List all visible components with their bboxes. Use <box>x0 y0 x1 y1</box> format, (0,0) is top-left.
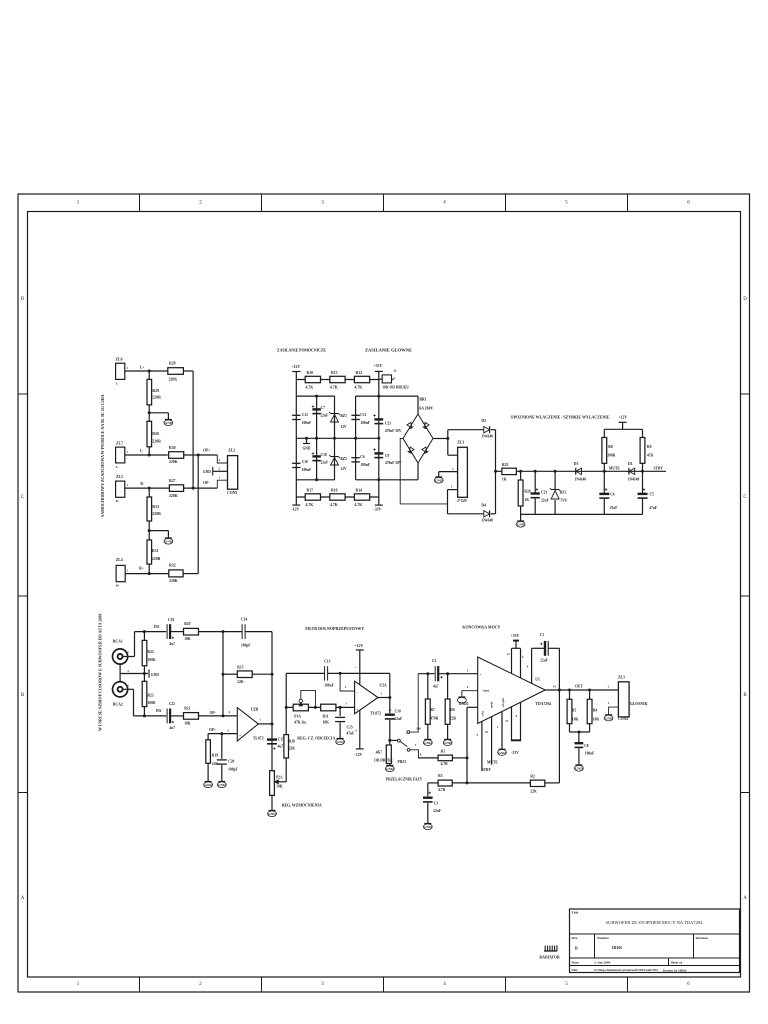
wire bridge bottom <box>417 463 419 480</box>
svg-text:22uF: 22uF <box>321 461 330 465</box>
frame column tick top <box>505 194 507 212</box>
rail +33V <box>378 371 380 479</box>
svg-text:220R: 220R <box>152 512 161 516</box>
svg-text:22K: 22K <box>530 790 537 794</box>
resistor R15 <box>237 671 252 678</box>
wire C19 to R20 <box>171 631 184 633</box>
frame column tick top <box>627 194 629 212</box>
svg-text:OD DRUKU: OD DRUKU <box>374 759 394 763</box>
resistor R24 <box>520 471 522 480</box>
svg-text:D: D <box>743 297 747 302</box>
svg-text:GND: GND <box>517 523 525 527</box>
svg-text:1N4148: 1N4148 <box>481 435 493 439</box>
frame column tick bottom <box>383 977 385 992</box>
svg-text:C10: C10 <box>395 710 401 714</box>
resistor R33 <box>148 488 150 497</box>
wire ZL4 to R32 <box>125 573 169 575</box>
ground flag RCA <box>148 669 150 677</box>
svg-text:100K: 100K <box>148 701 156 705</box>
resistor R13 <box>330 376 345 382</box>
svg-text:ZL5: ZL5 <box>116 475 123 479</box>
svg-text:100K: 100K <box>607 454 615 458</box>
wire IN2 <box>134 715 167 717</box>
connector ZL3 <box>458 447 468 497</box>
svg-text:C18: C18 <box>321 453 327 457</box>
wire C2 to amp <box>439 673 478 675</box>
svg-text:1N4148: 1N4148 <box>481 519 493 523</box>
ground R7 <box>424 738 431 740</box>
svg-text:R25: R25 <box>502 463 509 467</box>
svg-text:C19: C19 <box>168 618 174 622</box>
capacitor C6 <box>351 457 359 459</box>
svg-text:ZL4: ZL4 <box>116 558 123 562</box>
svg-text:OP-: OP- <box>210 711 217 715</box>
connector ZL5 <box>116 481 125 497</box>
switch PRZ1 throw 1 <box>407 748 410 751</box>
svg-text:R15: R15 <box>237 666 243 670</box>
svg-text:GND: GND <box>386 767 394 771</box>
capacitor C8 <box>578 732 580 743</box>
title block col revision <box>693 934 695 958</box>
connector RCA2 <box>113 682 128 697</box>
wire bridge right vertex <box>433 438 448 440</box>
capacitor C1 <box>544 641 546 656</box>
svg-text:GND: GND <box>424 825 432 829</box>
svg-text:R33: R33 <box>152 505 159 509</box>
svg-text:MUTE: MUTE <box>487 761 498 765</box>
wire top feedback left <box>286 672 324 674</box>
wire R32 to bus <box>183 573 198 575</box>
svg-text:C2: C2 <box>432 659 437 663</box>
bus wire right <box>197 455 199 574</box>
resistor R6 <box>447 674 449 699</box>
zener BZ1 <box>331 415 339 423</box>
svg-text:R26: R26 <box>152 432 159 436</box>
svg-text:Revision: Revision <box>696 936 709 940</box>
wire C2 input row <box>418 673 434 675</box>
svg-text:File:: File: <box>572 968 579 972</box>
capacitor C7 <box>312 408 320 410</box>
wire R3 left <box>428 782 438 784</box>
svg-text:FILTR DOLNOPRZEPUSTOWY: FILTR DOLNOPRZEPUSTOWY <box>305 626 364 631</box>
capacitor C22 <box>166 709 168 724</box>
ground C3 <box>424 823 431 825</box>
svg-text:GND: GND <box>218 783 226 787</box>
wire R2 to output <box>545 782 560 784</box>
resistor R5 <box>569 690 571 699</box>
vertical D2-D4 <box>495 430 497 514</box>
resistor R12 <box>354 376 369 382</box>
frame column tick bottom <box>139 977 141 992</box>
svg-text:47uF: 47uF <box>610 506 619 510</box>
svg-text:22uF: 22uF <box>540 659 549 663</box>
resistor R3 <box>438 780 452 786</box>
svg-text:ZL6: ZL6 <box>116 358 123 362</box>
frame column tick top <box>383 194 385 212</box>
frame row tick right <box>741 595 750 597</box>
resistor R25 <box>502 468 517 474</box>
svg-text:R12: R12 <box>356 371 363 375</box>
title block col size <box>594 934 596 958</box>
ZL3 pin3 wire <box>448 454 458 456</box>
svg-text:1K: 1K <box>502 478 507 482</box>
svg-text:100pF: 100pF <box>241 644 251 648</box>
resistor R1 <box>438 755 452 761</box>
svg-text:R30: R30 <box>169 446 176 450</box>
svg-text:KONCOWKA MOCY: KONCOWKA MOCY <box>462 625 500 630</box>
svg-text:+12V: +12V <box>618 416 627 420</box>
title block row line 2 <box>570 957 740 959</box>
wire top feedback right <box>328 672 390 674</box>
wire to R25 <box>496 470 502 472</box>
svg-text:U1: U1 <box>535 677 540 681</box>
svg-text:14: 14 <box>553 685 557 689</box>
svg-text:R7: R7 <box>431 708 436 712</box>
svg-text:C3: C3 <box>434 802 439 806</box>
svg-text:GND: GND <box>203 470 211 474</box>
resistor R28 <box>168 368 184 375</box>
svg-text:12V: 12V <box>340 467 347 471</box>
ground lower divider <box>165 537 172 539</box>
resistor R20 <box>184 628 199 635</box>
svg-text:100nF: 100nF <box>302 421 312 425</box>
svg-text:4.7R: 4.7R <box>438 788 445 792</box>
svg-text:C5: C5 <box>650 493 655 497</box>
svg-text:R-: R- <box>116 499 119 503</box>
svg-text:GLOSNIK: GLOSNIK <box>630 702 648 706</box>
resistor R2 <box>530 780 544 786</box>
capacitor C21 <box>374 418 383 420</box>
svg-text:R+: R+ <box>139 567 144 571</box>
wire R21 to U2B minus <box>199 715 238 717</box>
svg-text:Title: Title <box>572 911 579 915</box>
branch rail top aux <box>296 395 334 397</box>
capacitor C19 <box>166 624 168 639</box>
svg-text:STBY: STBY <box>482 768 492 772</box>
resistor R14 <box>354 494 369 500</box>
potentiometer P1A <box>293 704 308 711</box>
wire IN1 <box>135 631 167 633</box>
wire +33V to bridge <box>417 396 419 414</box>
branch rail bottom main <box>356 479 418 481</box>
branch rail top main <box>356 395 418 397</box>
ground delay <box>520 514 522 521</box>
svg-text:10R: 10R <box>593 718 600 722</box>
svg-text:Size: Size <box>572 936 578 940</box>
wire to GND tap upper <box>149 412 168 414</box>
svg-text:R+: R+ <box>116 584 120 588</box>
svg-text:A: A <box>21 896 25 901</box>
svg-text:4K7: 4K7 <box>376 751 383 755</box>
svg-text:GND: GND <box>435 479 443 483</box>
svg-text:C6: C6 <box>360 455 365 459</box>
wire U2A out <box>378 697 390 699</box>
svg-text:OP+: OP+ <box>209 728 216 732</box>
connector ZL1 <box>618 682 629 717</box>
svg-text:100nF: 100nF <box>360 463 370 467</box>
svg-text:1N4148: 1N4148 <box>575 478 587 482</box>
op-amp U2A <box>355 681 378 714</box>
resistor R30 <box>169 452 184 459</box>
svg-text:22uF: 22uF <box>541 499 550 503</box>
svg-text:TL072: TL072 <box>370 712 381 716</box>
svg-text:C16: C16 <box>302 460 308 464</box>
bridge BR1 diamond <box>403 414 433 463</box>
svg-text:GND: GND <box>268 812 276 816</box>
ground R19 <box>205 781 212 783</box>
svg-text:B: B <box>575 946 578 951</box>
bridge diode 3 <box>407 447 414 454</box>
wire inv input <box>340 673 355 691</box>
wire C1 right <box>548 647 559 649</box>
svg-text:L-: L- <box>116 465 119 469</box>
svg-text:A: A <box>743 896 747 901</box>
svg-text:R13: R13 <box>331 371 338 375</box>
resistor R4 <box>589 690 591 699</box>
resistor R29 <box>148 371 150 379</box>
svg-text:BZ2: BZ2 <box>340 457 347 461</box>
bus wire left <box>192 371 194 488</box>
svg-text:470uF 50V: 470uF 50V <box>385 461 402 465</box>
svg-text:- mute: - mute <box>482 690 490 693</box>
TDA mute pin line <box>491 717 493 765</box>
svg-text:R5: R5 <box>572 709 577 713</box>
mute-stby main wire <box>516 470 666 472</box>
svg-text:L+: L+ <box>140 366 144 370</box>
svg-text:100nF: 100nF <box>302 468 312 472</box>
svg-text:10K: 10K <box>184 637 191 641</box>
resistor R26 <box>147 421 152 447</box>
svg-text:+12V: +12V <box>355 644 364 648</box>
vertical filter input <box>285 673 287 734</box>
svg-text:OP-: OP- <box>203 481 210 485</box>
svg-text:+12V: +12V <box>292 365 301 369</box>
resistor R9 <box>642 429 644 437</box>
diode D4 <box>484 511 490 517</box>
svg-text:R4: R4 <box>593 709 598 713</box>
wire pin1 down <box>447 490 449 514</box>
frame row tick left <box>18 595 28 597</box>
svg-text:4u7: 4u7 <box>433 685 439 689</box>
svg-text:C1: C1 <box>540 633 545 637</box>
svg-text:22K: 22K <box>237 680 244 684</box>
svg-text:220R: 220R <box>152 440 161 444</box>
wire R33 to R31 <box>148 521 150 540</box>
svg-text:PRZELACZNIK FAZY: PRZELACZNIK FAZY <box>386 777 423 782</box>
svg-text:Drawn by IREK: Drawn by IREK <box>663 968 687 972</box>
capacitor C20 <box>221 734 223 759</box>
wire zobel join <box>570 731 590 733</box>
zener BZ2 <box>331 458 339 466</box>
svg-text:4.7K: 4.7K <box>330 386 338 390</box>
svg-text:IN1: IN1 <box>154 625 160 629</box>
ground C20 <box>218 781 225 783</box>
wire top to D2 <box>448 429 484 431</box>
capacitor C15 <box>339 707 341 716</box>
svg-text:220R: 220R <box>152 396 161 400</box>
svg-text:BZ3: BZ3 <box>560 491 567 495</box>
svg-text:4u7: 4u7 <box>169 726 175 730</box>
capacitor C12 <box>292 414 300 416</box>
svg-text:+33V: +33V <box>511 634 520 638</box>
top wire R8 R9 <box>604 428 642 430</box>
svg-text:22uF: 22uF <box>395 717 404 721</box>
bridge diode 1 <box>407 422 414 429</box>
svg-text:CON2: CON2 <box>618 717 628 721</box>
svg-text:220K: 220K <box>169 579 178 583</box>
wire D4 to corner <box>491 513 496 515</box>
svg-text:GND: GND <box>303 447 311 451</box>
wire plus row <box>286 706 354 708</box>
wire to GND tap lower <box>149 530 168 532</box>
svg-text:ZASILANIE GLOWNE: ZASILANIE GLOWNE <box>365 348 412 353</box>
svg-text:22K: 22K <box>450 717 457 721</box>
vertical C1 feedback <box>558 648 560 783</box>
ground GND2 <box>458 696 465 698</box>
svg-text:CON3: CON3 <box>227 491 237 495</box>
wire GND to ZL2 <box>213 470 228 472</box>
wire TDA output <box>545 689 618 691</box>
svg-text:22uF: 22uF <box>321 414 330 418</box>
resistor R22 <box>143 632 145 641</box>
wire C14 to fb <box>245 631 272 633</box>
svg-text:R18: R18 <box>289 740 295 744</box>
wire ZL6 to R28 <box>125 370 168 372</box>
wire R15 left <box>223 673 237 675</box>
svg-text:RCA2: RCA2 <box>113 703 123 707</box>
branch rail bottom aux <box>296 479 334 481</box>
svg-text:5V6: 5V6 <box>561 499 567 503</box>
svg-text:GND: GND <box>444 741 452 745</box>
amplifier U1 TDA7294 <box>478 657 546 724</box>
ground C15 <box>337 738 344 740</box>
ground mid rail <box>306 438 308 443</box>
svg-text:REG. WZMOCNIENIA: REG. WZMOCNIENIA <box>282 803 322 808</box>
svg-text:GND2: GND2 <box>459 702 469 706</box>
svg-text:P2A: P2A <box>276 776 283 780</box>
svg-text:R14: R14 <box>356 489 363 493</box>
capacitor C9 <box>374 452 383 454</box>
svg-text:10K OD DRUKU: 10K OD DRUKU <box>382 386 409 390</box>
svg-text:GND: GND <box>204 783 212 787</box>
svg-text:+33V: +33V <box>374 364 383 368</box>
heatsink symbol RADIATOR <box>544 950 557 952</box>
wire R15 right <box>252 673 272 675</box>
resistor R17 <box>305 494 320 500</box>
vertical C14 node <box>222 632 224 716</box>
op-amp U2B <box>237 708 258 741</box>
svg-text:C9: C9 <box>385 454 390 458</box>
svg-text:ZL3: ZL3 <box>457 441 464 445</box>
ground P2A <box>271 795 273 810</box>
TDA positive supply pins <box>511 648 513 673</box>
svg-text:100nF: 100nF <box>324 684 334 688</box>
svg-text:5: 5 <box>394 377 396 381</box>
svg-text:OPOZNIONE WLACZENIE / SZYBKIE: OPOZNIONE WLACZENIE / SZYBKIE WYLACZENIE <box>511 415 610 420</box>
svg-text:Date:: Date: <box>572 961 580 965</box>
svg-text:C4: C4 <box>610 493 615 497</box>
title block col sheet <box>668 958 670 966</box>
svg-text:R22: R22 <box>148 650 154 654</box>
frame row tick right <box>741 393 750 395</box>
wire D2 to corner <box>491 429 496 431</box>
svg-text:U2A: U2A <box>379 684 387 688</box>
svg-text:220K: 220K <box>169 460 178 464</box>
svg-text:10K: 10K <box>184 722 191 726</box>
svg-text:GND: GND <box>151 673 159 677</box>
wire R3 to R2 <box>452 782 530 784</box>
svg-text:R19: R19 <box>212 754 218 758</box>
svg-text:R20: R20 <box>184 622 190 626</box>
rail top resistor row <box>296 379 379 381</box>
mid rail GND <box>296 437 379 439</box>
svg-text:C22: C22 <box>169 702 175 706</box>
svg-text:100nF: 100nF <box>585 752 595 756</box>
svg-text:OUT: OUT <box>575 685 583 689</box>
connector ZL7 <box>116 447 125 463</box>
svg-text:D3: D3 <box>574 462 579 466</box>
svg-text:RCA1: RCA1 <box>113 640 123 644</box>
svg-text:4.7K: 4.7K <box>355 386 363 390</box>
svg-text:REG. CZ. ODCIECIA: REG. CZ. ODCIECIA <box>297 735 335 740</box>
svg-text:TDA7294: TDA7294 <box>535 702 551 706</box>
svg-text:6A 260V: 6A 260V <box>419 407 433 411</box>
svg-text:+: + <box>480 673 482 677</box>
svg-text:R27: R27 <box>169 479 176 483</box>
svg-text:GND: GND <box>424 741 432 745</box>
svg-text:C17: C17 <box>278 738 284 742</box>
svg-text:C14: C14 <box>241 618 247 622</box>
wire R30 to ZL2 OP+ <box>184 454 218 456</box>
TDA stby pin line <box>481 721 483 771</box>
capacitor C5 <box>642 471 644 493</box>
capacitor C14 <box>241 624 243 639</box>
RCA2 pin wire <box>123 688 134 690</box>
svg-text:4u7: 4u7 <box>169 642 175 646</box>
wire U2B output <box>258 723 272 725</box>
TDA bootstrap wire <box>531 648 533 683</box>
frame column tick bottom <box>505 977 507 992</box>
svg-text:R1: R1 <box>441 750 446 754</box>
svg-text:R8: R8 <box>608 445 613 449</box>
svg-text:4.7K: 4.7K <box>306 503 314 507</box>
svg-text:-33V: -33V <box>511 751 519 755</box>
TDA negative supply pins <box>511 707 513 741</box>
svg-text:MUTE: MUTE <box>609 467 620 471</box>
frame column tick top <box>261 194 263 212</box>
TDA pin4 wire <box>462 691 478 697</box>
svg-text:R29: R29 <box>152 389 159 393</box>
wire U2B plus input <box>208 733 237 735</box>
svg-text:GND: GND <box>336 740 344 744</box>
switch PRZ1 lever <box>400 742 407 747</box>
capacitor C13 <box>324 666 326 680</box>
bridge diode 4 <box>422 447 429 454</box>
svg-text:C7: C7 <box>321 406 326 410</box>
resistor R27 <box>169 485 183 492</box>
svg-text:R11: R11 <box>323 715 329 719</box>
switch PRZ1 common <box>390 739 398 741</box>
svg-text:47uF: 47uF <box>649 506 658 510</box>
diode D1 <box>629 468 635 474</box>
power flag -12V <box>295 497 297 505</box>
svg-text:L-: L- <box>116 382 119 386</box>
svg-text:C23: C23 <box>541 491 547 495</box>
ground upper divider <box>165 419 172 421</box>
resistor R21 <box>184 713 199 720</box>
ZL3 pin1 wire <box>448 489 458 491</box>
svg-text:220R: 220R <box>152 557 161 561</box>
